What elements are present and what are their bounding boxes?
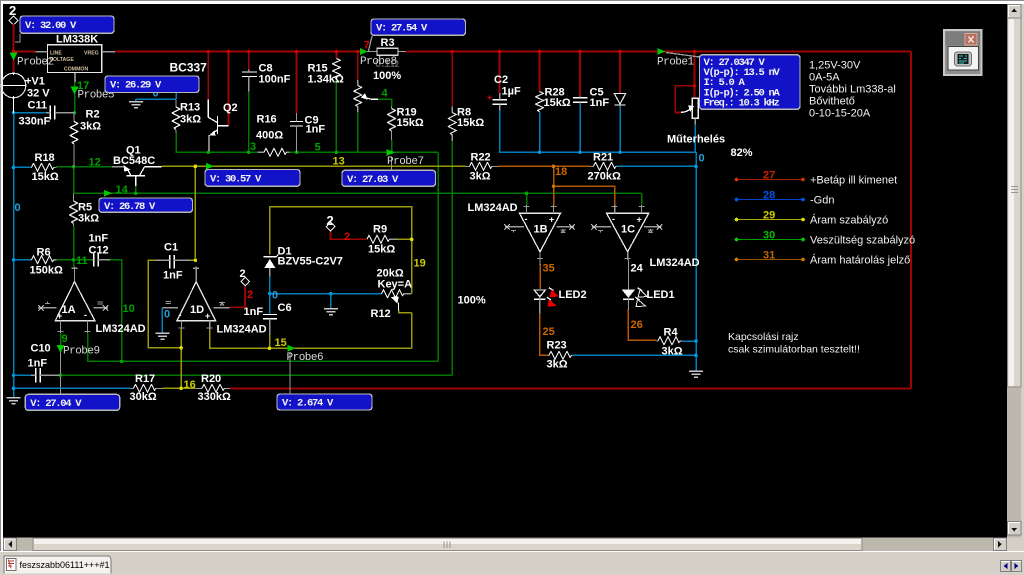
capacitor C9 1nF xyxy=(290,113,326,152)
svg-text:Kapcsolási rajz: Kapcsolási rajz xyxy=(728,331,799,343)
vertical scrollbar down button xyxy=(1008,522,1022,536)
wire C10 left lead xyxy=(14,374,32,376)
svg-text:R9: R9 xyxy=(373,224,387,236)
capacitor C12 1nF xyxy=(89,233,111,267)
resistor R19 15k xyxy=(388,106,424,140)
svg-text:1nF: 1nF xyxy=(89,233,109,245)
legend 29 Aram szabalyzo xyxy=(735,210,889,227)
svg-text:V: 27.04 V: V: 27.04 V xyxy=(30,398,82,410)
ground symbol top (R13) xyxy=(129,102,143,108)
svg-text:150kΩ: 150kΩ xyxy=(30,265,63,277)
probe1 leader xyxy=(666,53,700,58)
svg-text:C11: C11 xyxy=(28,100,48,112)
wire 1D +in pin to net15 bus xyxy=(210,329,412,348)
junction load pot branch xyxy=(693,84,697,88)
svg-text:14: 14 xyxy=(116,184,129,196)
svg-text:Műterhelés: Műterhelés xyxy=(667,134,725,146)
svg-text:V: 30.57 V: V: 30.57 V xyxy=(210,173,262,185)
svg-text:csak szimulátorban tesztelt!!: csak szimulátorban tesztelt!! xyxy=(728,344,860,356)
svg-text:1nF: 1nF xyxy=(244,306,264,318)
wire R4 right lead xyxy=(684,340,697,342)
wire R6 left lead xyxy=(14,259,31,261)
svg-text:+V1: +V1 xyxy=(25,76,45,88)
svg-text:19: 19 xyxy=(414,258,426,270)
svg-text:100%: 100% xyxy=(458,295,486,307)
resistor R18 15k xyxy=(31,152,59,183)
wire Q2 collector drop xyxy=(207,52,209,101)
ground symbol right column xyxy=(689,371,703,377)
svg-text:270kΩ: 270kΩ xyxy=(588,171,621,183)
wire feedback loop top edge xyxy=(270,207,412,255)
svg-text:330kΩ: 330kΩ xyxy=(198,391,231,403)
probe box V:30.57 xyxy=(205,170,300,187)
svg-text:32 V: 32 V xyxy=(27,88,50,100)
junction C10 bus375 xyxy=(59,373,63,377)
svg-text:V: 27.03 V: V: 27.03 V xyxy=(347,174,399,186)
svg-text:LM324AD: LM324AD xyxy=(650,257,700,269)
svg-text:R21: R21 xyxy=(593,152,613,164)
svg-text:0A-5A: 0A-5A xyxy=(809,72,840,84)
junction Q2 collector xyxy=(207,50,211,54)
wire R28 top lead xyxy=(539,52,541,92)
op-amp U1C LM324AD xyxy=(591,205,699,269)
svg-text:Probe1: Probe1 xyxy=(657,57,695,69)
probe7 leader xyxy=(391,157,393,171)
svg-text:3kΩ: 3kΩ xyxy=(662,346,683,358)
op-amp U1B LM324AD xyxy=(468,202,575,260)
svg-text:VREG: VREG xyxy=(84,51,99,57)
wire C2 top lead xyxy=(499,52,501,94)
diode D2 xyxy=(614,94,625,108)
svg-text:-: - xyxy=(179,310,182,320)
wire node2 to R9 xyxy=(331,231,367,240)
ground stem top xyxy=(135,99,137,101)
probe7 arrow xyxy=(387,149,395,156)
wire R15 top lead xyxy=(335,52,337,59)
svg-text:+Betáp ill kimenet: +Betáp ill kimenet xyxy=(810,175,897,187)
wire C2 bottom to net0 bus xyxy=(500,111,696,153)
wire node2 to bus xyxy=(13,24,15,52)
svg-text:R12: R12 xyxy=(371,308,391,320)
legend 31 Aram hatarolas jelzo xyxy=(735,250,911,267)
junction R18 xyxy=(12,166,16,170)
orange junction dots xyxy=(552,165,556,188)
svg-text:LM324AD: LM324AD xyxy=(96,323,146,335)
svg-text:Probe6: Probe6 xyxy=(287,352,324,364)
wire D2 bottom xyxy=(619,107,621,153)
wire LM338 COMMON net17 xyxy=(74,82,76,114)
svg-text:1,25V-30V: 1,25V-30V xyxy=(809,60,861,72)
wire top red bus left segment xyxy=(14,51,36,53)
svg-text:1C: 1C xyxy=(621,224,635,236)
wire C1 right lead yellow xyxy=(190,259,195,261)
svg-text:2: 2 xyxy=(9,3,16,18)
zener diode D1 BZV55-C2V7 xyxy=(264,246,343,277)
ground bottom-left stem xyxy=(13,388,15,397)
wire top mini gnd net xyxy=(136,93,176,99)
junction load pot xyxy=(693,50,697,54)
svg-text:1D: 1D xyxy=(190,304,204,316)
wire C8 top lead xyxy=(248,52,250,70)
capacitor C5 1nF xyxy=(573,87,609,110)
junction R15 net3 xyxy=(335,151,339,155)
svg-text:18: 18 xyxy=(555,166,567,178)
junction net12 xyxy=(72,165,76,169)
junction C10 xyxy=(12,373,16,377)
resistor R4 3k xyxy=(657,327,684,358)
capacitor C11 330nF xyxy=(19,100,75,128)
junction D2 net0 xyxy=(618,150,622,154)
svg-text:R3: R3 xyxy=(381,37,395,49)
wire 1B output grey xyxy=(539,260,541,265)
wire net0 vertical x696 xyxy=(695,152,697,370)
wire C8 bottom to net3 xyxy=(248,91,250,152)
svg-text:1nF: 1nF xyxy=(28,358,48,370)
probe box V:2.674 xyxy=(277,394,372,410)
svg-text:15kΩ: 15kΩ xyxy=(368,244,395,256)
wire net10 C12 to bus361 xyxy=(110,260,122,362)
svg-text:További Lm338-al: További Lm338-al xyxy=(809,84,896,96)
wire net0 to R12 xyxy=(270,293,382,295)
svg-text:1B: 1B xyxy=(534,224,548,236)
probe box V:27.04 xyxy=(25,394,119,410)
junction C9 net3 xyxy=(295,151,299,155)
potentiometer R12 20k xyxy=(371,268,486,321)
wire right border (red) xyxy=(910,52,912,389)
probe6 leader xyxy=(289,352,291,394)
svg-text:R23: R23 xyxy=(547,340,567,352)
svg-text:Probe8: Probe8 xyxy=(360,56,397,68)
wire net18 to 1C +in pin xyxy=(554,186,615,205)
svg-text:-: - xyxy=(525,214,528,224)
wire bottom border (red) xyxy=(230,387,911,389)
junction R3 left xyxy=(356,50,360,54)
svg-text:feszszabb06111+++#1: feszszabb06111+++#1 xyxy=(20,560,110,570)
svg-text:R18: R18 xyxy=(35,152,55,164)
junction Q2 base xyxy=(227,50,231,54)
svg-text:1nF: 1nF xyxy=(590,97,610,109)
svg-text:V: 26.29 V: V: 26.29 V xyxy=(110,80,162,92)
svg-text:+: + xyxy=(637,215,642,225)
wire net18 drop xyxy=(553,166,555,186)
wire R9 right lead to loop xyxy=(398,238,412,240)
svg-text:1nF: 1nF xyxy=(306,124,326,136)
wire R3 pot bottom to net3 xyxy=(357,112,359,153)
junction loop bottom left xyxy=(268,347,272,351)
junction R19 net3 xyxy=(390,151,394,155)
svg-text:BZV55-C2V7: BZV55-C2V7 xyxy=(278,256,343,268)
svg-text:3: 3 xyxy=(250,141,256,153)
cyan junction dots xyxy=(12,111,698,390)
LED1 (white arrows) xyxy=(623,288,675,310)
wire R15 bottom to net3 xyxy=(335,79,337,153)
legend 27 +Betap xyxy=(735,170,897,187)
junction net0 bottom xyxy=(12,387,16,391)
svg-text:V: 27.54 V: V: 27.54 V xyxy=(376,23,428,35)
svg-text:R4: R4 xyxy=(664,327,679,339)
svg-text:-Gdn: -Gdn xyxy=(810,195,834,207)
probe9 arrow xyxy=(57,345,65,353)
ground symbol mid (C6) xyxy=(324,309,338,315)
legend 30 Veszultseg szabalyzo xyxy=(735,230,915,247)
wire D1 cathode net0 xyxy=(269,276,271,314)
svg-text:1.34kΩ: 1.34kΩ xyxy=(308,74,345,86)
horizontal scrollbar left button xyxy=(4,538,17,551)
svg-text:24: 24 xyxy=(631,263,644,275)
op-amp U1A LM324AD xyxy=(38,267,146,336)
wire net0 bottom bus xyxy=(14,387,131,389)
wire 1A -in to bus361 xyxy=(88,333,439,361)
junction C8 xyxy=(247,50,251,54)
wire net13 bus Q1 collector to R22 xyxy=(162,165,466,167)
capacitor C2 1uF polarized xyxy=(487,74,521,111)
legend 28 -Gdn xyxy=(735,190,835,207)
svg-text:82%: 82% xyxy=(731,147,753,159)
ground stem mid xyxy=(330,294,332,308)
junction Q1 base net14 xyxy=(134,192,138,196)
junction R15 xyxy=(335,50,339,54)
resistor R6 150k xyxy=(30,247,63,277)
window top border xyxy=(0,0,1024,1)
probe14 arrow xyxy=(104,190,112,197)
svg-text:3kΩ: 3kΩ xyxy=(80,121,101,133)
junction R28 xyxy=(538,50,542,54)
wire R23 right to net0 xyxy=(573,354,697,356)
svg-text:COMMON: COMMON xyxy=(64,67,88,73)
capacitor C1 1nF xyxy=(156,242,190,282)
wire load pot bottom xyxy=(694,124,696,152)
capacitor C8 100nF xyxy=(242,63,291,92)
svg-text:R20: R20 xyxy=(201,373,221,385)
svg-text:LED2: LED2 xyxy=(559,289,587,301)
svg-text:V: 26.78 V: V: 26.78 V xyxy=(104,201,156,213)
wire loop right edge lower xyxy=(411,239,413,348)
wire 1B output to LED2 xyxy=(539,264,541,289)
instrument icon mini-window top right xyxy=(944,30,982,75)
wire net14 long green bus xyxy=(74,192,642,194)
svg-text:3kΩ: 3kΩ xyxy=(78,213,99,225)
junction V1/bus xyxy=(12,50,16,54)
svg-text:Q2: Q2 xyxy=(223,102,238,114)
svg-text:C2: C2 xyxy=(494,74,508,86)
junction net11 xyxy=(72,258,76,262)
wire R3 wiper pot top lead xyxy=(357,52,359,81)
wire net26 LED1 to R4 xyxy=(628,309,656,340)
svg-text:LM324AD: LM324AD xyxy=(217,324,267,336)
svg-text:0: 0 xyxy=(15,202,21,214)
wire net12 R18 to Q1 emitter xyxy=(56,166,112,168)
potentiometer (R3 wiper zigzag) xyxy=(354,80,378,112)
wire 1D +side gnd xyxy=(161,308,163,333)
resistor R9 15k xyxy=(367,224,398,256)
wire left rail vertical xyxy=(13,113,15,396)
svg-text:C6: C6 xyxy=(278,302,292,314)
wire Q1 base to net14 xyxy=(135,186,137,194)
wire probe9 leader grey xyxy=(60,352,62,394)
svg-text:3kΩ: 3kΩ xyxy=(547,359,568,371)
horizontal scrollbar right button xyxy=(994,538,1007,551)
wire R5 chain vertical xyxy=(73,226,75,267)
svg-text:1µF: 1µF xyxy=(502,86,521,98)
wire R18 left lead xyxy=(14,166,31,168)
svg-text:26: 26 xyxy=(631,319,643,331)
wire 1C output grey xyxy=(627,260,629,310)
resistor R16 400 Ohm (in net3 bus) xyxy=(256,114,290,157)
probe1 arrow xyxy=(658,48,666,55)
svg-text:Probe2: Probe2 xyxy=(17,57,54,69)
svg-text:15kΩ: 15kΩ xyxy=(32,171,59,183)
probe2 arrow xyxy=(10,53,18,61)
resistor R8 15k xyxy=(448,107,484,142)
svg-text:2: 2 xyxy=(344,231,350,243)
probe2 leader xyxy=(15,34,20,43)
junction R3 right xyxy=(451,50,455,54)
svg-text:15kΩ: 15kΩ xyxy=(457,117,484,129)
node 2 connector diamond top-left xyxy=(9,3,18,25)
node 2 connector diamond (mid) xyxy=(240,268,250,286)
svg-text:5: 5 xyxy=(315,142,321,154)
junction Q2 emitter net3 xyxy=(207,151,211,155)
junction R9 loop xyxy=(410,238,414,242)
wire net25 LED2 to R23 xyxy=(540,314,548,356)
svg-text:R6: R6 xyxy=(37,247,51,259)
capacitor C6 1nF xyxy=(244,302,292,335)
svg-text:+: + xyxy=(549,215,554,225)
wire op-amp 1D output red xyxy=(230,287,245,308)
probe8 arrow xyxy=(360,48,368,55)
ground symbol 1D xyxy=(155,333,169,339)
svg-text:LM338K: LM338K xyxy=(56,34,98,46)
wire net13 drop to C1/1D apex xyxy=(194,166,196,258)
svg-text:100nF: 100nF xyxy=(259,74,291,86)
probe3 arrow xyxy=(206,163,214,170)
wire 1B +in pin drop xyxy=(526,193,528,205)
wire 1C -in pin drop xyxy=(641,193,643,205)
wire net16 between R17 and R20 xyxy=(163,387,196,389)
svg-text:Key=A: Key=A xyxy=(378,279,413,291)
svg-text:R13: R13 xyxy=(180,102,200,114)
wire C1 left to loop left edge xyxy=(148,260,181,348)
wire bus375 xyxy=(61,374,453,376)
svg-text:Probe7: Probe7 xyxy=(387,156,424,168)
svg-text:Freq.: 10.3 kHz: Freq.: 10.3 kHz xyxy=(704,98,780,110)
wire net3 vertical down (x438) xyxy=(437,152,439,361)
svg-text:330nF: 330nF xyxy=(19,116,51,128)
voltage regulator U2 LM338K xyxy=(35,34,115,83)
resistor R21 270k xyxy=(588,152,621,183)
svg-text:+: + xyxy=(487,93,492,103)
svg-text:3kΩ: 3kΩ xyxy=(470,171,491,183)
svg-text:-: - xyxy=(84,310,87,320)
svg-text:BC548C: BC548C xyxy=(113,155,155,167)
resistor R28 15k xyxy=(536,87,571,112)
svg-text:Áram határolás jelző: Áram határolás jelző xyxy=(810,254,910,267)
junction C1 right xyxy=(194,258,198,262)
wire R21 right lead xyxy=(617,165,697,167)
wire top red bus main xyxy=(115,51,911,53)
op-amp U1D LM324AD xyxy=(162,267,266,336)
horizontal scrollbar track xyxy=(3,538,1007,552)
svg-text:-: - xyxy=(612,214,615,224)
resistor R23 3k xyxy=(547,340,573,371)
junction R23 net0 xyxy=(694,354,698,358)
resistor R5 3k xyxy=(70,193,100,226)
wire load pot wiper branch xyxy=(675,86,694,113)
vertical scrollbar thumb xyxy=(1008,18,1022,387)
transistor Q2 BC337 xyxy=(170,61,238,152)
load potentiometer (Muterheles) xyxy=(667,98,725,145)
probe box multiline Probe1 xyxy=(700,55,801,110)
svg-text:0: 0 xyxy=(272,290,278,302)
vertical scrollbar up button xyxy=(1008,5,1022,19)
svg-text:15kΩ: 15kΩ xyxy=(397,117,424,129)
probe box V:26.29 xyxy=(105,76,199,93)
svg-text:2: 2 xyxy=(247,289,253,301)
svg-text:4: 4 xyxy=(382,88,389,100)
window left border xyxy=(0,1,1,575)
LED2 (on, red arrows) xyxy=(534,288,586,314)
wire net18 to 1B -in pin xyxy=(553,186,555,205)
junction C2 xyxy=(498,50,502,54)
horizontal scrollbar thumb xyxy=(33,538,862,551)
svg-text:R2: R2 xyxy=(86,109,100,121)
wire 1D -in pin to net16 xyxy=(180,329,182,388)
voltage source V1 xyxy=(1,73,50,113)
svg-text:15kΩ: 15kΩ xyxy=(544,97,571,109)
vertical scrollbar track xyxy=(1007,4,1021,538)
svg-text:16: 16 xyxy=(184,379,196,391)
svg-text:15: 15 xyxy=(275,337,287,349)
wire net3 bus right part xyxy=(290,151,439,153)
junction R6 xyxy=(12,258,16,262)
transistor Q1 BC548C xyxy=(112,145,162,186)
svg-text:BC337: BC337 xyxy=(170,61,208,75)
svg-text:400Ω: 400Ω xyxy=(256,130,283,142)
document tab xyxy=(4,556,111,574)
svg-text:C1: C1 xyxy=(164,242,178,254)
svg-text:25: 25 xyxy=(543,326,555,338)
resistor R22 3k xyxy=(466,152,498,183)
wire C11 left lead xyxy=(14,112,47,114)
junction C5 xyxy=(578,50,582,54)
wire load pot top lead xyxy=(693,52,695,99)
junction C5 net0 xyxy=(578,150,582,154)
junction net13 x195 xyxy=(194,165,198,169)
junction D2 xyxy=(618,50,622,54)
junction C6 gnd xyxy=(329,292,333,296)
vertical thumb grip xyxy=(1011,187,1018,193)
junction D1 net0 xyxy=(268,292,272,296)
junction R4 net0 xyxy=(694,339,698,343)
probe8 leader xyxy=(369,36,373,51)
svg-text:Veszültség szabályzó: Veszültség szabályzó xyxy=(810,235,915,247)
svg-text:10: 10 xyxy=(123,303,135,315)
svg-text:R17: R17 xyxy=(135,373,155,385)
wire R19 bottom to net3/probe7 xyxy=(391,140,393,153)
svg-text:0: 0 xyxy=(699,153,705,165)
wire 1A +in pin drop xyxy=(60,333,62,352)
svg-text:R22: R22 xyxy=(471,152,491,164)
wire C5 bottom xyxy=(579,105,581,153)
svg-text:0: 0 xyxy=(164,309,170,321)
junction net18 split xyxy=(552,184,556,188)
wire net4 pot wiper to R19 xyxy=(378,99,392,106)
bottom-right tab nav buttons xyxy=(1001,561,1022,572)
svg-text:9: 9 xyxy=(62,333,68,345)
probe6 arrow xyxy=(288,345,296,352)
wire R8 top drop xyxy=(451,52,453,107)
wire C5 top lead xyxy=(579,52,581,97)
